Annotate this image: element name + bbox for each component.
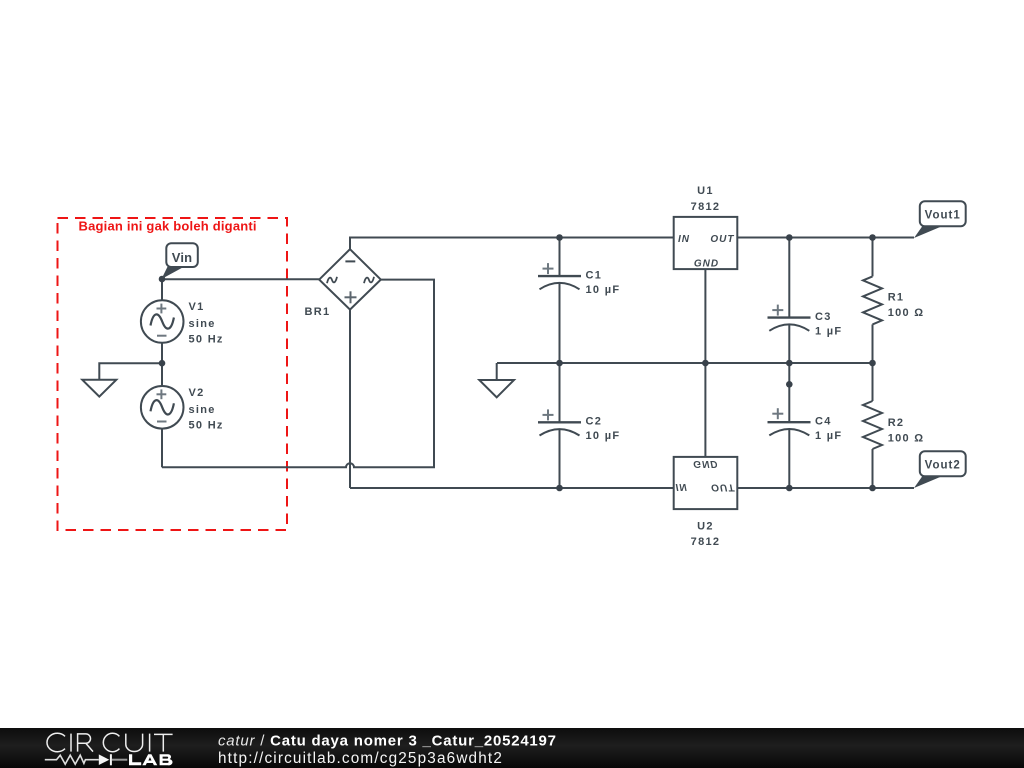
svg-text:C1: C1: [586, 270, 603, 282]
svg-text:GND: GND: [693, 458, 718, 469]
svg-text:V1: V1: [189, 301, 205, 313]
svg-text:1 µF: 1 µF: [815, 430, 842, 442]
svg-text:Vout2: Vout2: [925, 459, 961, 471]
svg-text:7812: 7812: [691, 201, 721, 213]
svg-text:catur / Catu daya nomer 3 _Cat: catur / Catu daya nomer 3 _Catur_2052419…: [218, 733, 557, 750]
svg-text:C3: C3: [815, 311, 832, 323]
svg-text:R2: R2: [888, 417, 905, 429]
svg-text:C4: C4: [815, 415, 832, 427]
svg-text:50 Hz: 50 Hz: [189, 419, 224, 431]
svg-text:sine: sine: [189, 404, 216, 416]
svg-text:V2: V2: [189, 387, 205, 399]
svg-text:IN: IN: [676, 481, 688, 492]
svg-text:1 µF: 1 µF: [815, 326, 842, 338]
svg-text:OUT: OUT: [710, 234, 734, 245]
svg-text:Vout1: Vout1: [925, 209, 961, 221]
svg-text:100 Ω: 100 Ω: [888, 307, 925, 319]
svg-text:http://circuitlab.com/cg25p3a6: http://circuitlab.com/cg25p3a6wdht2: [218, 750, 503, 767]
svg-text:Bagian ini gak boleh diganti: Bagian ini gak boleh diganti: [79, 219, 257, 234]
svg-text:OUT: OUT: [711, 482, 735, 493]
svg-text:GND: GND: [694, 258, 719, 269]
svg-text:7812: 7812: [691, 536, 721, 548]
svg-text:sine: sine: [189, 318, 216, 330]
svg-text:U1: U1: [697, 185, 714, 197]
svg-text:BR1: BR1: [305, 306, 331, 318]
svg-text:10 µF: 10 µF: [586, 284, 621, 296]
svg-text:R1: R1: [888, 291, 905, 303]
svg-text:U2: U2: [697, 521, 714, 533]
svg-text:10 µF: 10 µF: [586, 430, 621, 442]
svg-text:IN: IN: [678, 234, 690, 245]
svg-text:Vin: Vin: [172, 250, 193, 265]
svg-text:C2: C2: [586, 416, 603, 428]
svg-text:100 Ω: 100 Ω: [888, 432, 925, 444]
svg-text:50 Hz: 50 Hz: [189, 334, 224, 346]
